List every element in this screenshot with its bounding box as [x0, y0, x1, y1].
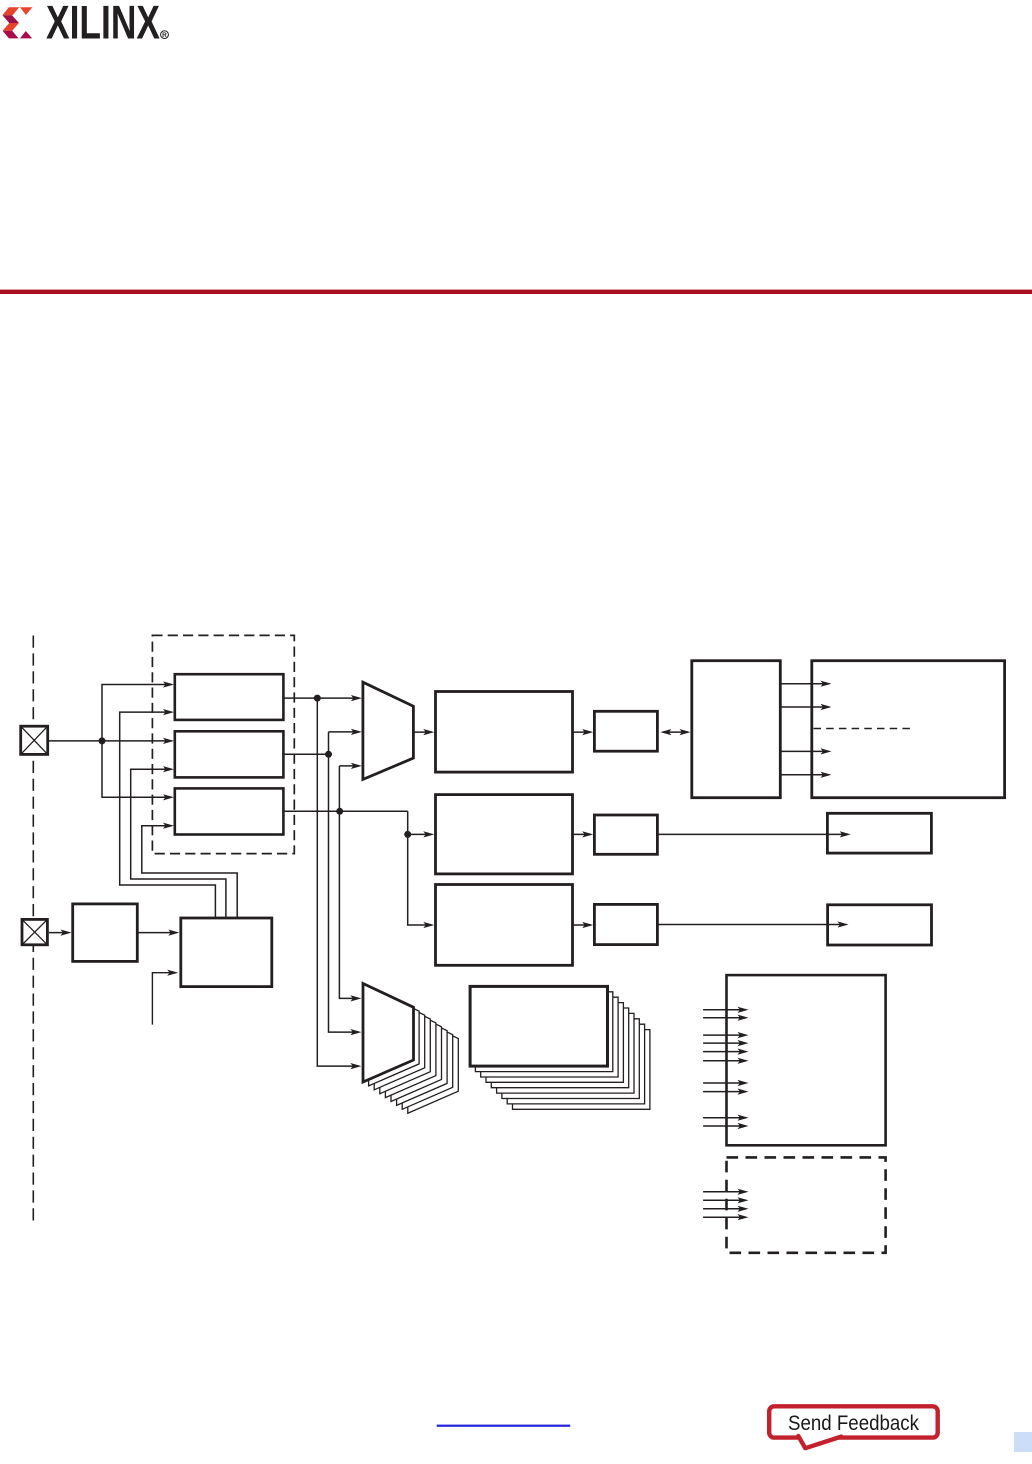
arrowheads optional output wires [738, 1189, 749, 1221]
wire VCO phase tap 3 [780, 750, 828, 752]
arrowheads clock output group 4 [738, 1115, 749, 1130]
clock detector block 1 [175, 674, 284, 720]
feedback wire to clock detector 1 input 2 [120, 712, 216, 918]
optional output wires [703, 1192, 740, 1217]
PFD block 3 [436, 885, 573, 966]
Xilinx logo mark [2, 7, 32, 38]
phase control box [181, 918, 272, 987]
PFD block 1 [436, 692, 573, 773]
clock output wire group 2 [703, 1035, 740, 1061]
net A: detector 1 output down to mux M2 input 3 [317, 698, 358, 1066]
output register box 3 [828, 905, 932, 945]
clock output wire group 1 [703, 1010, 740, 1018]
arrowhead into PFD block 3 [423, 922, 434, 928]
wire filter 3 to output register box 3 [657, 924, 845, 926]
junction dot on CLKIN wire [99, 737, 106, 744]
wire detector 1 output to mux M1 input 1 [283, 697, 358, 699]
wire detector 2 output [283, 753, 328, 755]
wire junction up to clock detector 1 input 1 [102, 685, 171, 741]
wire feedback buffer to phase control box [137, 932, 176, 934]
wire junction to clock detector 2 input 1 [102, 740, 171, 742]
filter box 3 [594, 904, 657, 944]
arrowheads into mux M1 [351, 695, 362, 769]
clock output wire group 4 [703, 1118, 740, 1126]
feedback wire to clock detector 3 input 2 [142, 826, 237, 918]
arrowheads clock output group 2 [738, 1032, 749, 1064]
page number highlight [1014, 1432, 1032, 1452]
junction dot net A [314, 695, 321, 702]
mux M2 [363, 984, 414, 1083]
junction dot net B [325, 751, 332, 758]
svg-text:R: R [162, 32, 167, 39]
header red rule [0, 290, 1032, 294]
arrowhead into PFD block 1 [423, 729, 434, 735]
svg-text:Send Feedback: Send Feedback [788, 1411, 919, 1435]
wire VCO phase tap 2 [780, 706, 828, 708]
mux M2 stack echoes [369, 987, 459, 1113]
clock output buffer box [727, 975, 886, 1145]
wire PFD 3 to filter box 3 [573, 924, 591, 926]
net C: detector 3 output to mux M1 input 3 and mux M2 input 1 [339, 766, 358, 999]
wire VCO phase tap 1 [780, 683, 828, 685]
wire filter 2 to output register box 2 [657, 833, 847, 835]
arrowheads into clock detector blocks [163, 681, 174, 828]
wire PFD 2 to filter box 2 [573, 833, 591, 835]
arrowhead into phase control box input 1 [168, 930, 179, 936]
PFD block 2 [436, 795, 573, 874]
svg-text:XILINX: XILINX [46, 0, 160, 50]
filter box 2 [594, 815, 657, 854]
arrowhead into PFD block 2 [423, 831, 434, 837]
arrowhead left of bidirectional wire [660, 729, 671, 735]
filter box 1 [594, 711, 657, 751]
dashed FPGA boundary line [32, 636, 34, 1225]
wire junction down to clock detector 3 input 1 [102, 741, 171, 797]
arrowheads clock output group 1 [738, 1007, 749, 1021]
mux M1 [363, 682, 414, 779]
wire detector 3 output branch down to PFD rows [408, 811, 432, 925]
arrowhead into output register box 3 [838, 921, 849, 927]
wire mux M1 output to PFD block 1 [413, 731, 431, 733]
wire detector 3 output [283, 810, 407, 812]
arrowhead phase tap 1 [821, 681, 832, 687]
wire CLKFBIN pad to feedback buffer [49, 932, 69, 934]
arrowhead into filter box 3 [582, 922, 593, 928]
registered trademark symbol [161, 31, 169, 40]
footer hyperlink underline [437, 1425, 571, 1427]
input pad CLKFBIN [22, 919, 47, 944]
clock output wire group 3 [703, 1083, 740, 1092]
wire CLKIN to input junction [49, 740, 102, 742]
dashed ellipsis line inside phase outputs box [814, 728, 914, 730]
wire VCO phase tap 4 [780, 774, 828, 776]
wire PFD 1 to filter box 1 [573, 731, 591, 733]
Send Feedback button [769, 1406, 938, 1449]
arrowhead phase tap 2 [821, 704, 832, 710]
arrowhead into feedback buffer [61, 930, 72, 936]
junction dot PFD branch [404, 831, 411, 838]
feedback wire to clock detector 2 input 2 [131, 769, 226, 918]
input pad CLKIN [21, 726, 48, 754]
output register box 2 [827, 813, 931, 853]
arrowhead into phase control box input 2 [167, 970, 178, 976]
arrowhead into filter box 1 [582, 729, 593, 735]
clock detector block 3 [175, 788, 284, 834]
arrowhead right of bidirectional wire [680, 729, 691, 735]
stub wire into phase control box input 2 [152, 973, 175, 1025]
arrowhead into mux M2 input 2 [350, 1029, 361, 1035]
arrowhead into output register box 2 [840, 831, 851, 837]
clock detector block 2 [175, 731, 284, 777]
dashed clock-detect container box [152, 635, 294, 853]
phase outputs box [812, 661, 1005, 798]
arrowhead into filter box 2 [582, 831, 593, 837]
counter bank box [470, 986, 607, 1066]
wire branch into PFD block 2 [408, 833, 432, 835]
feedback buffer box [73, 904, 138, 962]
arrowhead into mux M2 input 3 [350, 1063, 361, 1069]
dashed optional output box [727, 1157, 886, 1252]
net B: detector 2 output to mux M1 input 2 and mux M2 input 2 [329, 732, 359, 1032]
arrowhead phase tap 3 [821, 748, 832, 754]
arrowhead into mux M2 input 1 [350, 995, 361, 1001]
arrowheads clock output group 3 [738, 1080, 749, 1095]
junction dot net C [336, 808, 343, 815]
counter bank stack echoes [475, 992, 650, 1110]
arrowhead phase tap 4 [821, 772, 832, 778]
VCO box [692, 661, 781, 798]
bidirectional wire filter 1 to VCO box [663, 731, 688, 733]
